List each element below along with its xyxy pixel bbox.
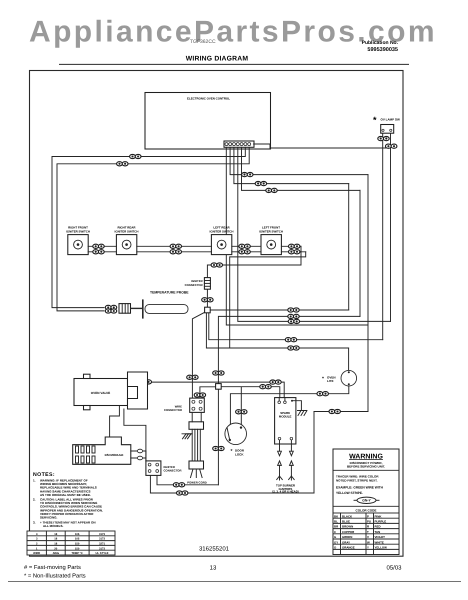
connector on probe wire lower [117,162,128,166]
svg-text:20: 20 [54,547,57,550]
bottom page rule [8,581,461,583]
svg-text:(2, 3, 4 OR 6 HEAD): (2, 3, 4 OR 6 HEAD) [272,489,299,493]
svg-text:3271: 3271 [99,543,105,546]
svg-text:1.: 1. [33,479,36,483]
wire J1 down to oven light feed y348 [206,313,348,348]
wire lamp switch right lead x390.5 [390,133,392,321]
svg-text:IGNITER SWITCH: IGNITER SWITCH [66,229,90,233]
ground at power cord [182,434,192,439]
wire oven valve drop right to igniter connector [124,409,146,461]
svg-text:GY: GY [334,540,338,544]
wire switch row upper bus [88,245,301,247]
wire y316.4 to x360 and drop x218.4 [218,316,360,484]
wire oven valve to spark module right pin [148,382,285,398]
wire J1 down to y339.7 lamp switch left [209,313,383,340]
wire connector block [164,398,204,412]
right rear igniter switch [115,226,139,255]
svg-text:WIRE: WIRE [33,552,40,555]
wire J2 right to DSI module left pin, branch door lock [221,387,280,427]
igniter connector (inline, vertical) [185,278,211,290]
svg-text:T: T [367,530,369,534]
connector pair RF-RR [93,244,104,254]
wire y310 junction to x348.7 [210,309,349,311]
svg-text:GN-Y: GN-Y [362,499,371,503]
svg-text:RED: RED [375,525,381,529]
svg-text:WIRING DIAGRAM: WIRING DIAGRAM [186,56,249,63]
connector on wire y190.4 [266,188,277,192]
svg-text:TGF362CC: TGF362CC [190,39,216,45]
connector at oven valve output [140,380,151,384]
svg-text:18: 18 [54,543,57,546]
connector on x218.4 at y373 [213,371,224,375]
svg-text:YELLOW STRIPE.: YELLOW STRIPE. [336,491,363,495]
svg-text:TAN: TAN [375,530,381,534]
svg-text:*: * [322,376,324,382]
svg-text:5995390035: 5995390035 [367,47,398,53]
connector on lamp switch left lead [378,137,389,141]
note 2 [33,498,103,520]
oven igniter connector block [146,461,182,476]
DSI module [73,437,131,464]
oven lamp switch [373,115,400,133]
svg-text:3173: 3173 [99,547,105,550]
svg-text:ELECTRONIC OVEN CONTROL: ELECTRONIC OVEN CONTROL [187,97,230,101]
color code table [333,513,399,555]
wire pin7 to temperature probe (lower) [57,147,249,311]
wire J1 diagonal to wire connector block [192,312,204,401]
connector pair LF-out [289,244,300,254]
electronic oven control box [145,93,271,150]
EOC connector pin strip P1 [224,141,254,147]
svg-text:BLUE: BLUE [342,520,350,524]
svg-text:105: 105 [75,538,80,541]
svg-text:105: 105 [75,533,80,536]
svg-text:GREEN: GREEN [342,535,352,539]
connector on DSI feed lower y386.7 [260,385,271,389]
svg-text:POWER CORD: POWER CORD [187,481,207,485]
wire vertical x314 [313,412,315,494]
svg-text:AWG: AWG [53,552,59,555]
wire y411.5 to x368 [314,411,368,413]
svg-text:*: * [373,115,377,125]
connector on x192.4 at y377.3 [187,375,198,379]
svg-text:05/03: 05/03 [386,565,402,572]
wire switch loop return x229.7 [230,252,306,348]
note 3 [33,520,95,528]
svg-text:CONNECTOR: CONNECTOR [164,469,182,473]
svg-text:TRACER WIRE: WIRE COLOR: TRACER WIRE: WIRE COLOR [336,474,379,478]
svg-text:P: P [367,514,369,518]
svg-text:NOTES:: NOTES: [33,472,55,478]
svg-text:*: * [231,449,233,455]
connector on wire y493 [177,491,188,495]
svg-text:BLACK: BLACK [342,514,353,518]
svg-text:OV LAMP SW: OV LAMP SW [381,118,400,122]
wire vertical x360 [359,190,361,316]
svg-text:SERVICING.: SERVICING. [40,516,57,520]
svg-text:DSI MODULE: DSI MODULE [105,453,124,457]
wire vertical x348.7 [348,184,350,310]
wire pin2 right run y174.6 [230,147,368,174]
svg-text:YELLOW: YELLOW [375,546,388,550]
power cord [187,412,207,484]
svg-text:PINK: PINK [375,514,383,518]
wire pin3 right run y183.6 [234,147,349,183]
svg-text:COPPER: COPPER [342,530,355,534]
connector on door lock lead y411.8 [236,410,247,414]
warning box [333,449,399,555]
connector on oven light bottom y393.7 [317,392,328,396]
connector on wire y339.7 [285,338,296,342]
connector on x199.9 at y395 [194,393,205,397]
main diagram border [30,71,404,557]
connector on wire y174.6 [242,173,253,177]
junction square J2 [216,384,222,390]
connector on wire y316.4 [288,314,299,318]
svg-text:EXAMPLE: GREEN WIRE WITH: EXAMPLE: GREEN WIRE WITH [336,486,384,490]
wire EOC strip right feed to lamp switch [254,144,391,148]
svg-text:UL STYLE: UL STYLE [96,552,109,555]
connector above junction J1 [202,298,213,302]
wire junction square J1 up through igniter connector [207,246,301,307]
svg-text:BEFORE SERVICING UNIT.: BEFORE SERVICING UNIT. [347,464,385,468]
svg-text:VIOLET: VIOLET [375,535,386,539]
connector on wire y321.4 [288,319,299,323]
svg-text:3173: 3173 [99,538,105,541]
connector on wire y183.6 [255,182,266,186]
wire oven valve drop left [110,406,120,438]
right front igniter switch [66,226,90,255]
svg-text:W: W [367,540,370,544]
svg-text:ALL MODELS.: ALL MODELS. [43,524,63,528]
svg-text:GRAY: GRAY [342,540,350,544]
wire oven light bottom lead y393.7 [230,386,348,440]
left front igniter switch [259,226,283,255]
svg-text:PURPLE: PURPLE [375,520,387,524]
svg-text:ORANGE: ORANGE [342,546,355,550]
svg-text:Publication No.: Publication No. [362,40,399,46]
svg-text:AS THE ORIGINAL MUST BE U: AS THE ORIGINAL MUST BE USED. [40,493,91,497]
left rear igniter switch [210,226,234,255]
wire pin4 long drop to y321.4 [238,147,391,321]
connector on DSI feed upper y382.1 [270,380,281,384]
svg-text:TEMPERATURE PROBE: TEMPERATURE PROBE [150,291,189,295]
svg-text:PU: PU [367,520,371,524]
svg-text:TEMP °C: TEMP °C [72,552,83,555]
svg-text:* = Non-Illustrated Parts: * = Non-Illustrated Parts [24,573,86,580]
svg-text:MODULE: MODULE [279,415,292,419]
connector on x218.4 at y448.5 [213,446,224,450]
svg-text:BL: BL [334,520,338,524]
wire switch row lower bus [88,251,306,253]
svg-text:WHITE: WHITE [375,540,384,544]
wire oven light top lead [348,348,350,371]
temperature probe [119,291,189,319]
door lock motor [225,423,247,456]
wire junction square J2 left to wire connector [200,387,216,401]
svg-text:IGNITER SWITCH: IGNITER SWITCH [259,229,283,233]
svg-text:150: 150 [75,543,80,546]
connector pair at probe [105,305,116,313]
svg-text:3.: 3. [33,520,36,524]
svg-text:13: 13 [210,565,217,572]
svg-text:CONNECTOR: CONNECTOR [185,283,203,287]
note 1 [33,479,97,497]
top burner igniter leads with arrows [272,444,299,493]
svg-text:316255201: 316255201 [199,546,230,553]
oven valve [74,372,148,410]
svg-text:Y: Y [367,546,369,550]
connector on wire y484.8 [173,483,184,487]
svg-text:18: 18 [54,533,57,536]
ground at spark module [293,401,307,416]
connector on lamp switch right lead [386,144,397,148]
connector on wire y411.5 [329,409,340,413]
svg-text:LITE: LITE [327,379,334,383]
svg-text:WARNING: WARNING [349,453,383,460]
svg-text:OVEN VALVE: OVEN VALVE [91,391,110,395]
svg-text:IGNITER SWITCH: IGNITER SWITCH [115,229,139,233]
svg-text:NOTED FIRST, STRIPE NEXT.: NOTED FIRST, STRIPE NEXT. [336,479,378,483]
svg-text:IGNITER SWITCH: IGNITER SWITCH [210,229,234,233]
svg-text:3173: 3173 [99,533,105,536]
wire pin6 to temperature probe (upper) [52,147,245,307]
wire pin1 long drop to y325 [226,147,368,325]
wire DSI module to igniter connector (2 leads) [131,449,146,461]
spark module (top burners) [275,398,296,444]
svg-text:V: V [367,535,369,539]
connector on igniter row feed y265 [211,263,222,267]
svg-text:CONNECTOR: CONNECTOR [164,408,182,412]
connector on probe wire upper [130,154,141,158]
svg-text:COLOR CODE: COLOR CODE [356,509,377,513]
connector pair RR-LR [170,244,181,254]
wire gauge table [27,531,115,555]
svg-text:150: 150 [75,547,80,550]
svg-text:18: 18 [54,538,57,541]
wire vertical x368 [367,175,369,412]
svg-text:2.: 2. [33,498,36,502]
connector on wire y348 [288,346,299,350]
svg-text:LOCK: LOCK [235,452,244,456]
connector on wire y310 [288,308,299,312]
junction square J1 [205,307,211,313]
wire y484.8 igniter connector to x218.4 [157,475,218,484]
wire pin5 right run y190.4 [242,147,361,190]
wire y493 bottom run [150,475,314,493]
svg-text:BROWN: BROWN [342,525,353,529]
svg-text:# = Fast-moving Parts: # = Fast-moving Parts [24,564,81,571]
connector pair LR-LF [239,244,250,254]
title underline [59,63,409,65]
wire lamp switch left lead x382.7 [382,133,384,340]
oven light [322,370,357,386]
